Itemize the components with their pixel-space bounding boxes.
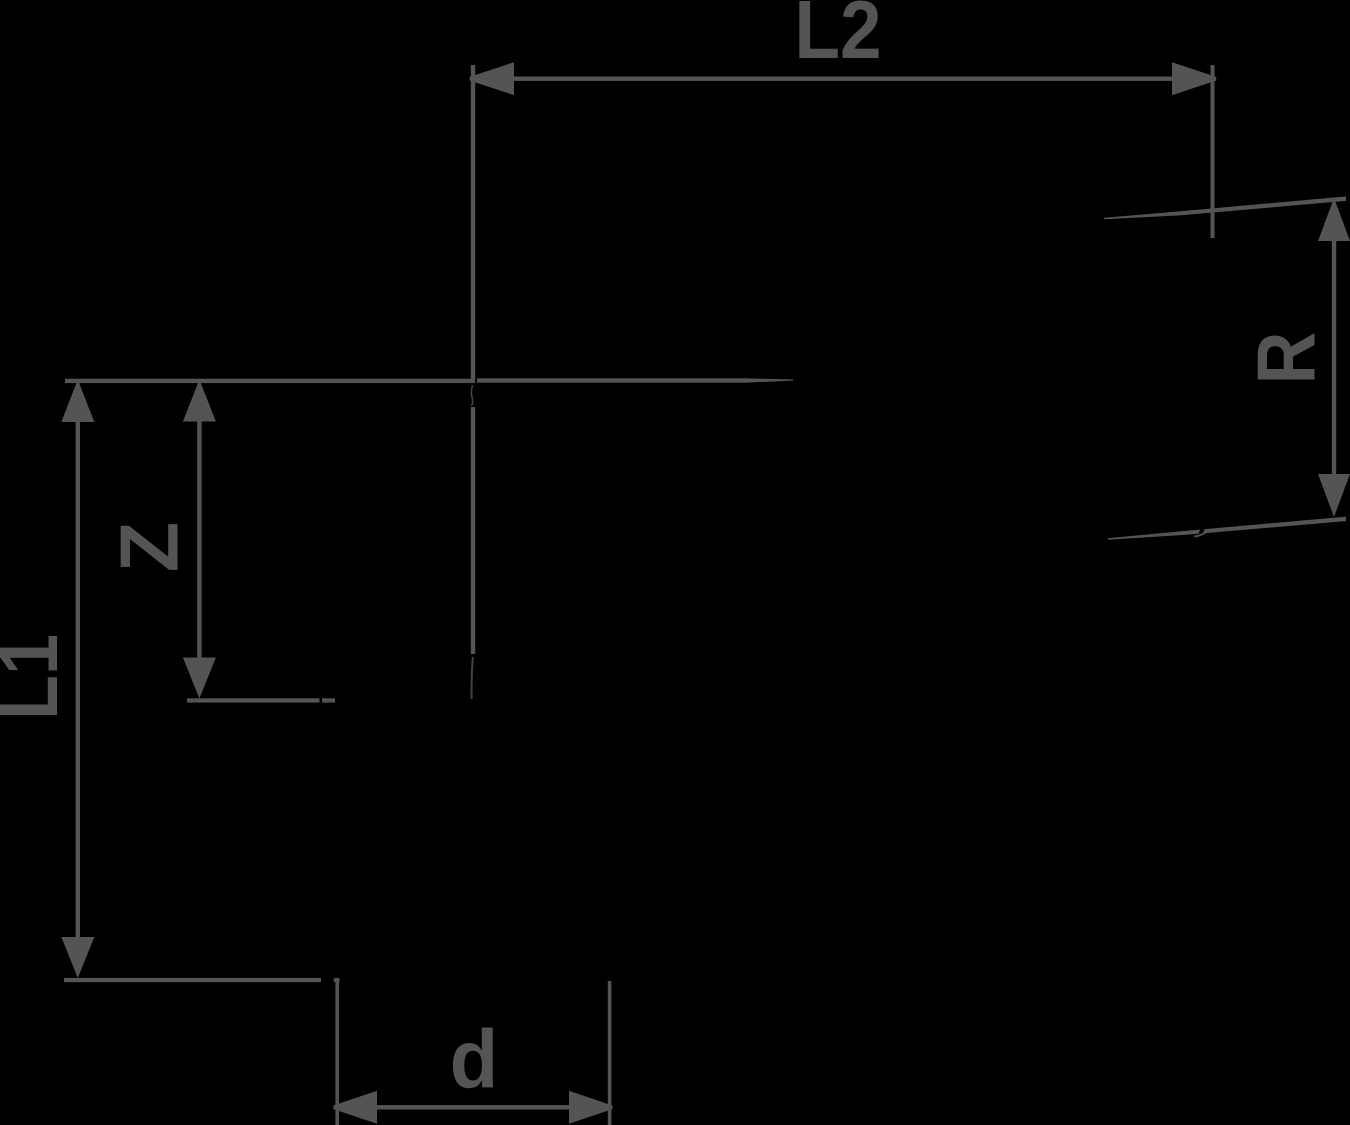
svg-text:L2: L2 — [794, 0, 881, 76]
svg-text:L1: L1 — [0, 634, 75, 720]
svg-text:R: R — [1239, 332, 1332, 385]
svg-text:d: d — [450, 1013, 499, 1106]
svg-text:Z: Z — [103, 522, 196, 573]
